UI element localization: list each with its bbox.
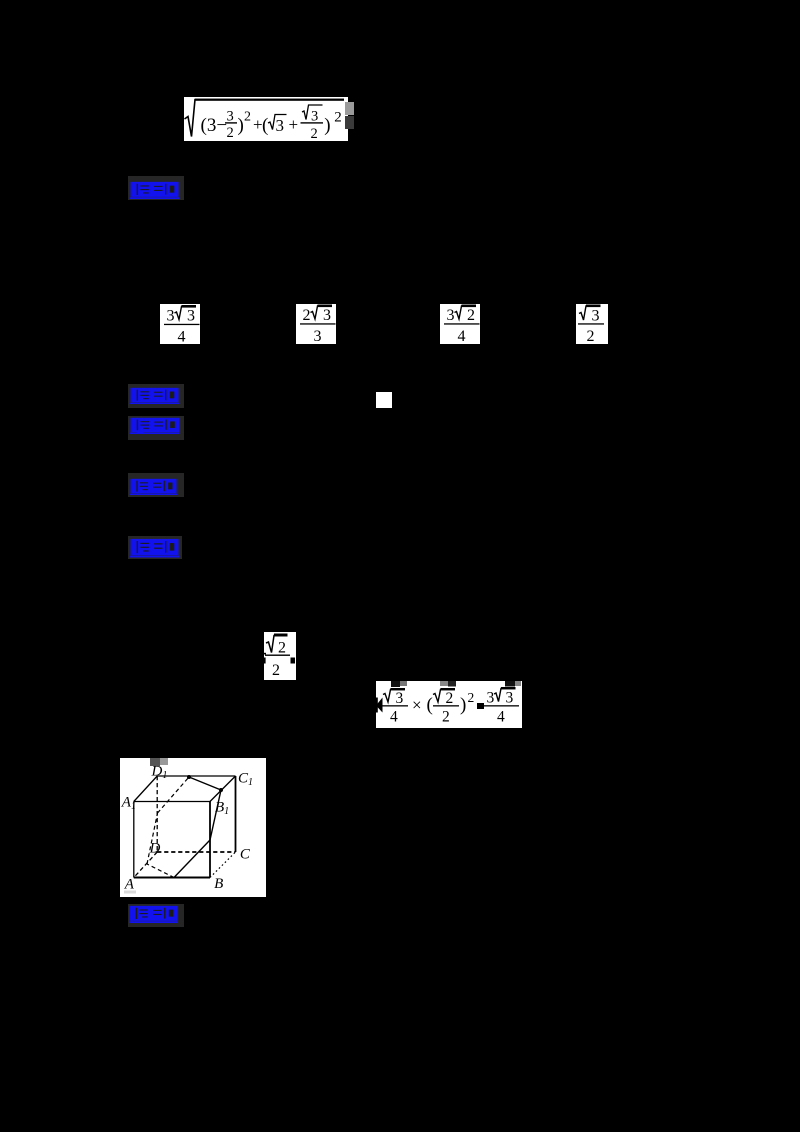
svg-text:3: 3 — [187, 307, 195, 324]
edge C1C — [235, 776, 237, 852]
svg-text:2: 2 — [227, 125, 234, 141]
faint mark under A — [124, 891, 136, 894]
grey blob top — [150, 758, 160, 766]
svg-text:2: 2 — [468, 690, 475, 705]
dark tabs at top — [391, 681, 400, 687]
edge D1C1 — [157, 775, 235, 777]
svg-text:2: 2 — [272, 662, 280, 679]
formula 2: sqrt3/4 x (sqrt2/2)^2 = 3sqrt3/4 — [376, 681, 522, 728]
svg-text:3: 3 — [487, 690, 495, 707]
svg-text:): ) — [460, 695, 466, 716]
edge DC — [157, 851, 235, 853]
svg-text:4: 4 — [497, 709, 505, 726]
blue label 2 — [128, 384, 184, 409]
svg-text:2: 2 — [303, 307, 311, 324]
svg-text:2: 2 — [244, 109, 251, 124]
svg-text:3: 3 — [276, 116, 285, 135]
big radical — [185, 99, 345, 136]
blue label 6 — [128, 904, 184, 928]
svg-text:(3−: (3− — [201, 115, 228, 136]
section dashed Q-T-S-M — [147, 777, 189, 878]
svg-text:3: 3 — [591, 308, 599, 325]
edge BB1 — [209, 802, 211, 878]
svg-text:3: 3 — [314, 328, 322, 344]
edge DA — [134, 852, 157, 878]
blue label 1 — [128, 176, 184, 200]
grey clipped glyph at right of formula 1 — [345, 102, 354, 115]
white square placeholder — [376, 392, 393, 409]
svg-text:D: D — [149, 841, 161, 857]
svg-text:+: + — [289, 115, 299, 134]
svg-text:): ) — [238, 115, 244, 136]
svg-text:3: 3 — [323, 307, 331, 324]
clipped glyph left edge — [376, 698, 383, 713]
svg-text:B1: B1 — [215, 800, 229, 818]
option B: 2sqrt3/3 — [296, 304, 336, 344]
svg-text:×: × — [412, 696, 422, 715]
svg-text:3: 3 — [227, 108, 234, 124]
svg-text:2: 2 — [467, 307, 475, 324]
blue label 4 — [128, 473, 184, 497]
svg-text:3: 3 — [311, 108, 318, 124]
section solid M-N-P-Q — [174, 777, 221, 878]
svg-text:4: 4 — [390, 709, 398, 726]
option D: sqrt3/2 — [576, 304, 609, 344]
svg-text:C1: C1 — [238, 771, 253, 789]
svg-text:D1: D1 — [151, 764, 168, 782]
svg-text:B: B — [214, 876, 223, 892]
blue label 3 — [128, 416, 184, 441]
edge A1B1 — [134, 801, 210, 803]
clipped marks at left edge — [264, 652, 266, 654]
svg-text:2: 2 — [311, 126, 318, 142]
svg-text:3: 3 — [167, 307, 175, 324]
frac sqrt3/2 — [302, 105, 323, 120]
frac sqrt2/2 — [433, 690, 455, 703]
blue label 5 — [128, 536, 182, 559]
svg-text:3: 3 — [506, 690, 514, 707]
svg-text:4: 4 — [458, 328, 466, 344]
sqrt3 inline — [268, 114, 287, 129]
svg-text:2: 2 — [278, 639, 286, 656]
svg-text:4: 4 — [178, 328, 186, 344]
cube dashed edges — [134, 776, 236, 878]
svg-text:3: 3 — [447, 307, 455, 324]
svg-text:2: 2 — [586, 328, 594, 344]
svg-text:(: ( — [262, 115, 268, 136]
edge A1A — [133, 802, 135, 878]
labels — [121, 764, 253, 893]
= blob — [477, 703, 484, 709]
edge BC dotted — [210, 852, 236, 878]
edge D1D — [156, 776, 158, 852]
cube solid edges — [134, 776, 236, 878]
edge AB — [134, 877, 210, 879]
svg-text:2: 2 — [442, 709, 450, 726]
option C: 3sqrt2/4 — [440, 304, 480, 344]
svg-text:): ) — [324, 115, 330, 136]
comma blob — [291, 657, 296, 663]
cube diagram image — [120, 758, 266, 897]
svg-text:2: 2 — [446, 690, 454, 707]
edge B1C1 — [210, 776, 236, 802]
frac sqrt3/4 — [383, 690, 405, 703]
formula image 1: sqrt((3-3/2)^2+(sqrt3+sqrt3/2)^2)^2 — [184, 97, 348, 142]
edge A1D1 — [134, 776, 157, 802]
dots at M and N — [187, 775, 191, 779]
formula sqrt2/2 , — [264, 632, 296, 681]
option A: 3sqrt3/4 — [160, 304, 200, 345]
svg-text:2: 2 — [334, 109, 342, 125]
svg-text:3: 3 — [396, 690, 404, 707]
svg-text:A: A — [124, 877, 135, 893]
svg-text:C: C — [240, 846, 251, 862]
svg-text:A1: A1 — [121, 794, 136, 812]
svg-text:(: ( — [427, 695, 433, 716]
